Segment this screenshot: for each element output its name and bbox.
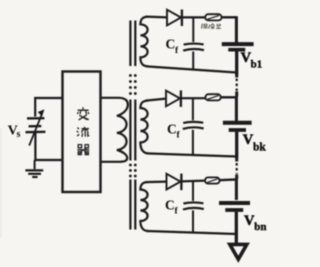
rail to battery corner (cell k) (221, 96, 237, 98)
fuse F1 (205, 14, 221, 20)
secondary winding 2 (140, 101, 147, 154)
fuse F2 (205, 94, 220, 100)
label 变流器 (drawn strokes) (77, 107, 89, 154)
capacitor C3 branch (192, 182, 194, 201)
svg-text:C: C (165, 198, 175, 213)
cell1 top rail (146, 16, 168, 19)
cell n top rail (146, 181, 167, 184)
svg-text:bn: bn (254, 221, 266, 233)
diode D3 (167, 174, 181, 190)
svg-text:b1: b1 (251, 59, 263, 71)
wire source top: corner to converter (35, 98, 62, 117)
wire source bottom (35, 132, 62, 160)
primary winding (with leads to box) (101, 98, 128, 162)
cell n bottom rail (147, 231, 237, 234)
label Cf (cell1) (166, 37, 180, 56)
svg-text:s: s (17, 129, 21, 140)
dashed string link 1 (235, 76, 238, 97)
arrow across source (29, 110, 43, 145)
变 (77, 107, 89, 120)
capacitor C1 branch (192, 17, 194, 42)
diode D2 (166, 91, 180, 107)
battery V_bn (219, 201, 250, 205)
battery V_bk (223, 121, 252, 125)
dashed string link 2 (235, 158, 238, 179)
battery V_b1 (235, 42, 238, 43)
converter box (63, 72, 101, 193)
cell k bottom rail (147, 153, 237, 156)
core continuation dots (129, 74, 137, 177)
器 (77, 145, 89, 155)
svg-text:bk: bk (253, 142, 266, 154)
cell k top rail (146, 99, 167, 101)
ground arrow (bottom) (230, 244, 247, 259)
rail to battery corner (cell n) (220, 178, 237, 181)
battery VS adjustable source plates (27, 117, 44, 120)
capacitor C2 branch (192, 98, 194, 120)
secondary winding 3 (140, 182, 147, 231)
label 保险丝 (tiny) (202, 24, 221, 29)
transformer core (130, 21, 135, 67)
流 (77, 127, 89, 137)
cell1 bottom rail (147, 66, 237, 72)
svg-text:C: C (166, 37, 176, 52)
label Cf (cell k) (167, 122, 181, 141)
rail to battery corner (222, 16, 237, 18)
label Cf (cell n) (165, 198, 179, 217)
node Vs label (8, 124, 21, 141)
fuse F3 (205, 177, 220, 183)
secondary winding 1 (140, 17, 147, 67)
svg-text:C: C (167, 122, 177, 137)
ground (left) (34, 160, 36, 169)
diode D1 (167, 10, 181, 26)
